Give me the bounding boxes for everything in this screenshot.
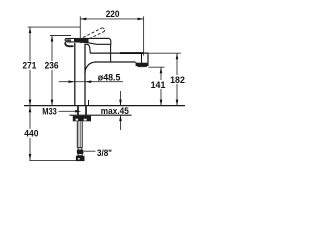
spout top thick segment [120, 52, 144, 54]
dimension 440 [24, 106, 77, 161]
aerator step [135, 62, 136, 64]
svg-text:236: 236 [45, 61, 59, 71]
supply hose [77, 122, 82, 148]
label 3/8" [84, 148, 112, 158]
base ring right edge [88, 100, 90, 106]
svg-text:ø48.5: ø48.5 [98, 72, 121, 82]
aerator bottom lip [138, 66, 147, 68]
spout tip right edge [147, 53, 149, 63]
raised lever (dashed) upper line [79, 28, 103, 40]
dimension 182 [148, 53, 186, 105]
spout tip left seam [141, 53, 143, 63]
svg-text:271: 271 [23, 61, 37, 71]
mounting nut [73, 116, 91, 122]
hose end nut 3/8 [76, 156, 85, 161]
svg-text:M33: M33 [42, 106, 57, 116]
aerator block at spout tip [136, 63, 149, 66]
hose end connector [78, 148, 82, 150]
label M33 [42, 106, 81, 116]
svg-text:440: 440 [24, 129, 38, 139]
dimension 141 [148, 67, 166, 105]
lever back dark section [74, 39, 89, 43]
raised lever dashed end cap [102, 28, 104, 32]
dimension 271 [22, 27, 81, 106]
dimension 236 [44, 36, 72, 106]
lever back cap lip [65, 42, 73, 46]
spout inner curve [85, 62, 96, 73]
svg-text:max.45: max.45 [101, 106, 129, 116]
dimension 220 [80, 9, 143, 56]
thread shank below deck [77, 106, 79, 115]
label diameter 48.5 [59, 72, 123, 83]
wire: deck mounting line [24, 105, 185, 107]
raised lever (dashed) lower line [81, 31, 105, 43]
svg-text:141: 141 [151, 80, 166, 90]
lever handle (rest position) [65, 38, 111, 44]
wire: deck bottom line (max thickness) [70, 114, 132, 116]
pedestal right step / seam [110, 45, 112, 63]
spout bottom line [96, 61, 136, 63]
faucet body right edge [84, 44, 86, 106]
svg-text:182: 182 [170, 75, 185, 85]
label max.45 [101, 91, 129, 130]
svg-text:220: 220 [106, 9, 120, 19]
svg-text:3/8": 3/8" [97, 148, 112, 158]
faucet body left edge [74, 43, 76, 106]
spout top line [90, 52, 148, 54]
head left shoulder curve [85, 44, 90, 53]
